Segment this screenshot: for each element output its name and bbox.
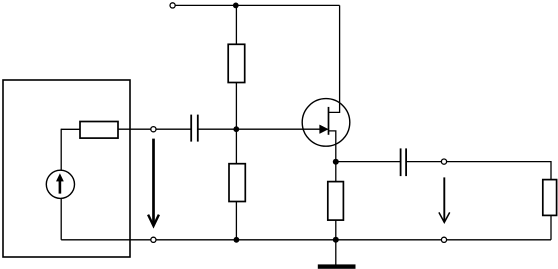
node junction on supply rail	[233, 3, 239, 9]
terminal VDD (open circle, top left of supply rail)	[170, 3, 175, 8]
wire bottom rail (ground net)	[61, 239, 551, 241]
terminal input return (open circle on bottom rail, left)	[151, 237, 156, 242]
wire from Rsig right end to gate line through input terminal	[118, 128, 191, 130]
terminal input (open circle on gate line)	[151, 127, 156, 132]
signal source enclosure box	[3, 80, 130, 257]
terminal output (open circle on output line)	[441, 159, 446, 164]
wire gate line from C1 to transistor gate	[198, 128, 328, 130]
wire from current source bottom to bottom rail	[60, 199, 62, 240]
capacitor C1 (input coupling)	[191, 115, 198, 142]
wire from R2 bottom to bottom rail	[235, 202, 237, 240]
wire drain lead down from supply rail	[329, 5, 340, 112]
terminal output return (open circle on bottom rail, right)	[441, 237, 446, 242]
node junction at gate (divider tap)	[233, 126, 239, 132]
resistor Rsig (horizontal, inside source box)	[80, 122, 118, 139]
wire from R1 bottom to gate node and on to R2	[235, 83, 237, 164]
wire top supply rail	[175, 4, 339, 6]
capacitor C2 (output coupling)	[401, 148, 407, 176]
wire from C2 to load corner	[406, 162, 551, 180]
wire from Rsig left end to current source branch	[61, 128, 80, 130]
node junction at transistor source	[333, 159, 339, 165]
wire from source node to C2	[336, 161, 401, 163]
wire from source node down to Rs	[335, 162, 337, 182]
current source I1	[46, 170, 74, 198]
resistor Rs (source resistor)	[328, 182, 344, 221]
resistor RL (load)	[543, 180, 557, 216]
wire from Rs bottom to bottom rail	[335, 220, 337, 240]
arrow vin (input voltage indicator)	[148, 139, 159, 226]
wire from supply rail down to R1	[235, 5, 237, 44]
wire down to current source top	[60, 129, 62, 171]
transistor Q1 (JFET symbol)	[302, 99, 350, 162]
wire from RL bottom to bottom rail	[550, 215, 552, 240]
arrow vout (output voltage indicator)	[439, 177, 450, 222]
resistor R1 (upper bias resistor)	[228, 44, 245, 82]
resistor R2 (lower bias resistor)	[229, 164, 245, 202]
node junction on bottom rail below R2	[234, 237, 240, 243]
node junction on bottom rail at ground stem	[333, 237, 339, 243]
ground	[318, 240, 356, 269]
